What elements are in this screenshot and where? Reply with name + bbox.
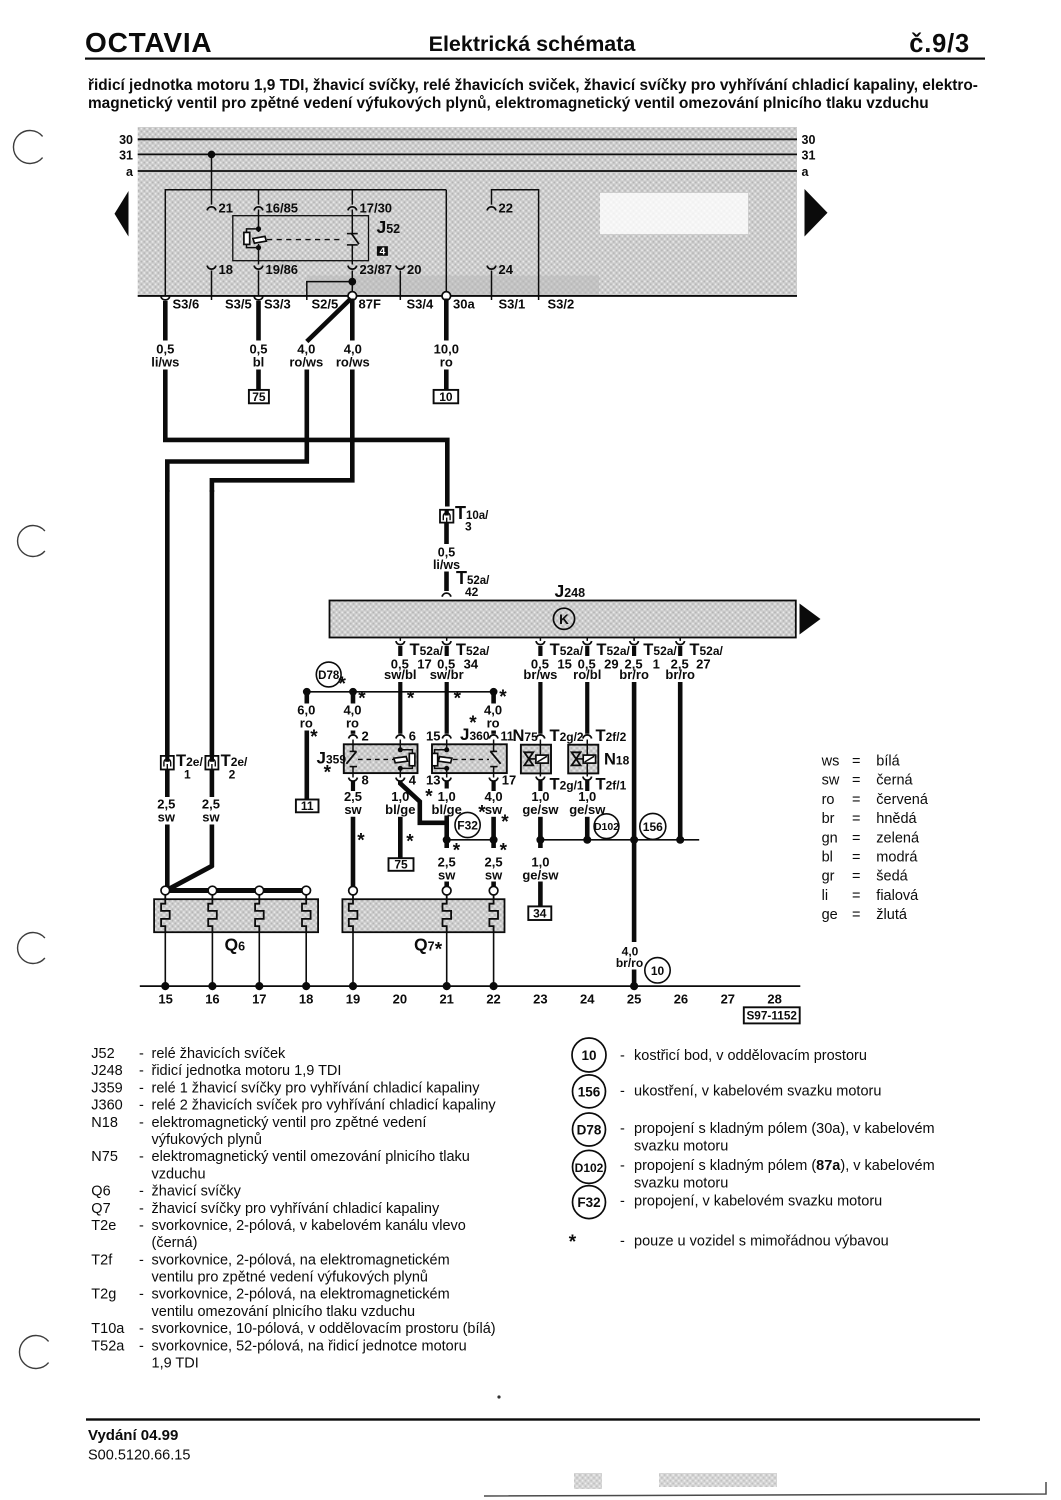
svg-text:42: 42 (465, 585, 479, 599)
glow plugs Q7 (342, 886, 504, 960)
D102 junction circle (594, 814, 619, 839)
svg-text:elektromagnetický ventil pro z: elektromagnetický ventil pro zpětné vede… (152, 1115, 427, 1131)
svg-text:T2g/2: T2g/2 (550, 727, 584, 745)
156 ground circle (640, 813, 666, 839)
N75 wire through (539, 740, 541, 777)
svg-text:75: 75 (394, 858, 408, 872)
svg-text:svorkovnice, 2-pólová, v kabel: svorkovnice, 2-pólová, v kabelovém kanál… (152, 1218, 466, 1234)
J360 pin 13 arc (442, 778, 451, 782)
svg-text:-: - (139, 1218, 144, 1234)
svg-text:N75: N75 (91, 1149, 118, 1165)
J359 pin 6 arc (396, 735, 405, 739)
svg-text:-: - (139, 1098, 144, 1114)
svg-text:31: 31 (119, 149, 133, 163)
wire 4,0 ro/ws first routed left-down (167, 370, 306, 493)
svg-text:21: 21 (439, 992, 453, 1007)
wire to Q7 terminal 3 (491, 882, 496, 887)
svg-text:Q7: Q7 (414, 935, 435, 955)
punch hole mark 2 (18, 526, 45, 557)
svg-text:br: br (822, 811, 835, 827)
wire 10,0 ro upper segment (444, 299, 449, 341)
terminal 19/86 arc (254, 266, 263, 270)
rail dot middle (349, 688, 357, 696)
J52 switch lower wire (351, 245, 353, 261)
J360 dashed link (453, 758, 489, 760)
svg-text:-: - (620, 1048, 625, 1064)
scan speck (497, 1395, 500, 1398)
svg-text:=: = (852, 869, 860, 885)
svg-text:=: = (852, 773, 860, 789)
svg-text:K: K (559, 612, 569, 627)
svg-text:gn: gn (822, 830, 838, 846)
svg-text:řidicí jednotka motoru 1,9 TDI: řidicí jednotka motoru 1,9 TDI, žhavicí … (88, 77, 978, 94)
svg-text:-: - (139, 1201, 144, 1217)
svg-text:34: 34 (533, 906, 547, 920)
junction rail R2 (447, 839, 494, 841)
svg-text:sw: sw (822, 773, 840, 789)
wire to Q7 terminal 2 (444, 882, 449, 887)
Q6 terminal 3 (255, 886, 264, 895)
R3 dot N18 (583, 836, 591, 844)
svg-text:F32: F32 (457, 819, 478, 833)
node 30a (442, 292, 451, 301)
left continuation arrow (115, 191, 129, 237)
svg-text:relé 2 žhavicích svíček pro vy: relé 2 žhavicích svíček pro vyhřívání ch… (152, 1098, 497, 1114)
scan smudge blob 2 (659, 1473, 777, 1487)
Q7 leg 2 (446, 932, 448, 986)
fuse row baseline (138, 295, 797, 297)
svg-text:zelená: zelená (876, 830, 920, 846)
J52 coil armature (253, 236, 267, 243)
Q6 leg 4 (305, 932, 307, 986)
N18 wire through (586, 740, 588, 777)
svg-text:svazku motoru: svazku motoru (634, 1176, 728, 1192)
svg-text:D102: D102 (575, 1161, 604, 1175)
terminal 18 stub to fuse row (211, 271, 213, 301)
J248 pin T52a/17 (384, 638, 444, 682)
svg-text:OCTAVIA: OCTAVIA (85, 27, 212, 58)
svg-text:-: - (620, 1234, 625, 1250)
svg-text:25: 25 (627, 992, 641, 1007)
ground designation box 34 (528, 906, 551, 920)
svg-text:modrá: modrá (876, 850, 918, 866)
svg-text:31: 31 (802, 149, 816, 163)
svg-text:-: - (139, 1321, 144, 1337)
svg-text:-: - (139, 1149, 144, 1165)
ground designation box 75 (249, 390, 269, 403)
J52 dashed link (267, 239, 344, 241)
terminal 16/85 arc (254, 207, 263, 211)
svg-text:-: - (139, 1338, 144, 1354)
svg-text:ro: ro (822, 792, 835, 808)
Q6 leg 1 (164, 932, 166, 986)
wire below T10a (444, 523, 449, 544)
svg-text:S00.5120.66.15: S00.5120.66.15 (88, 1448, 190, 1464)
svg-text:15: 15 (158, 992, 172, 1007)
svg-text:propojení s kladným pólem (87a: propojení s kladným pólem (87a), v kabel… (634, 1158, 935, 1174)
svg-text:č.9/3: č.9/3 (909, 30, 970, 58)
Q7 leg 3 (493, 932, 495, 986)
frame top line left (165, 190, 446, 296)
svg-text:-: - (139, 1287, 144, 1303)
valve N75 (513, 727, 584, 794)
scan smudge blob 1 (574, 1473, 602, 1489)
relay J360 (426, 713, 516, 788)
J52 switch upper contact (347, 233, 358, 235)
R2 dot left (443, 836, 451, 844)
svg-text:sw: sw (344, 802, 362, 817)
svg-text:75: 75 (252, 390, 266, 404)
svg-text:vzduchu: vzduchu (152, 1166, 206, 1182)
svg-text:Q6: Q6 (225, 935, 246, 955)
legend circle 10 (572, 1038, 606, 1072)
terminal 24 arc (487, 266, 496, 270)
svg-text:T2e: T2e (91, 1218, 116, 1234)
Q7 terminal 3 (489, 886, 498, 895)
terminal 17/30 arc (348, 207, 357, 211)
Q6 feed bus (165, 888, 306, 893)
glow plugs Q6 (154, 886, 318, 954)
svg-text:magnetický ventil pro zpětné v: magnetický ventil pro zpětné vedení výfu… (88, 95, 929, 112)
punch hole mark 1 (13, 131, 42, 164)
svg-text:*: * (435, 940, 443, 961)
J359 switch (352, 740, 354, 752)
svg-text:ro/ws: ro/ws (289, 355, 323, 370)
svg-text:ws: ws (821, 754, 840, 770)
wire A below connector (165, 770, 170, 798)
svg-text:1,9 TDI: 1,9 TDI (152, 1356, 199, 1372)
svg-text:=: = (852, 907, 860, 923)
wire 2,5 br/ro second down (678, 682, 683, 840)
rail dot right (490, 688, 498, 696)
wire below R2 left stub (444, 840, 449, 848)
svg-text:-: - (139, 1184, 144, 1200)
svg-text:Elektrická schémata: Elektrická schémata (429, 32, 637, 56)
svg-text:hnědá: hnědá (876, 811, 917, 827)
svg-text:br/ro: br/ro (616, 956, 643, 970)
ground track line (140, 985, 801, 987)
terminal 21 arc (207, 207, 216, 211)
wire pin8 to Q7 terminal 1 (351, 817, 356, 887)
svg-text:-: - (139, 1063, 144, 1079)
svg-text:relé 1 žhavicí svíčky pro vyhř: relé 1 žhavicí svíčky pro vyhřívání chla… (152, 1080, 481, 1096)
wire 0,5 li/ws upper segment (163, 301, 168, 341)
wire 0,5 li/ws routed to T10a (165, 370, 447, 507)
terminal 20 stub to fuse row (399, 271, 401, 301)
svg-text:=: = (852, 754, 860, 770)
svg-text:S3/5: S3/5 (225, 297, 252, 312)
svg-text:bl: bl (253, 355, 265, 370)
rail dot left (303, 688, 311, 696)
svg-text:sw/br: sw/br (430, 667, 464, 682)
J52 coil bottom dot (256, 245, 261, 250)
svg-text:br/ro: br/ro (665, 667, 695, 682)
svg-text:17: 17 (252, 992, 266, 1007)
D78 circle (316, 662, 341, 687)
punch hole mark 3 (18, 932, 45, 963)
right continuation arrow (805, 189, 828, 237)
svg-text:ukostření, v kabelovém svazku: ukostření, v kabelovém svazku motoru (634, 1084, 881, 1100)
ground dots (161, 982, 169, 990)
svg-text:D78: D78 (577, 1123, 602, 1138)
svg-text:a: a (802, 165, 810, 179)
N18 pin arc T2f/1 (583, 777, 592, 781)
relay J359 (317, 729, 418, 788)
wire N75 to rail R3 (538, 817, 543, 848)
S3/6 plug arc on fuse row (161, 296, 170, 300)
svg-text:20: 20 (407, 262, 421, 277)
svg-text:bl: bl (822, 850, 833, 866)
N18 box (568, 745, 598, 774)
svg-text:4: 4 (379, 246, 385, 258)
Q6 leg 3 (258, 932, 260, 986)
svg-text:J248: J248 (555, 581, 586, 601)
svg-text:elektromagnetický ventil omezo: elektromagnetický ventil omezování plnic… (152, 1149, 470, 1165)
wire 4,0 ro stub to J360 pin11 (491, 692, 496, 704)
svg-text:=: = (852, 830, 860, 846)
N75 pin arc T2g/2 (536, 735, 545, 739)
J359 pin 4 arc (396, 778, 405, 782)
node 87F (348, 292, 357, 301)
ground point circle 10 (645, 958, 670, 983)
terminal 23/87 wire from J52 (351, 261, 353, 265)
svg-text:ventilu pro zpětné vedení výfu: ventilu pro zpětné vedení výfukových ply… (152, 1270, 428, 1286)
legend circle 156 (573, 1075, 606, 1108)
wire 4,0 ro/ws diagonal from 87F (307, 299, 351, 342)
wire 4,0 ro/ws second upper segment (350, 299, 355, 341)
control unit J248 box (330, 601, 796, 638)
svg-text:F32: F32 (577, 1195, 600, 1210)
svg-text:30: 30 (802, 133, 816, 147)
legend circle F32 (573, 1186, 606, 1219)
svg-text:(černá): (černá) (152, 1235, 198, 1251)
J248 pin 42 arc (442, 593, 451, 597)
wire 10,0 ro to box 10 (444, 370, 449, 390)
J360 pin 17 arc (489, 778, 498, 782)
svg-text:Q6: Q6 (91, 1184, 110, 1200)
J360 coil (446, 740, 448, 752)
frame 22 riser (492, 190, 539, 300)
Q6 leg 2 (211, 932, 213, 986)
J52 coil pin wire upper (258, 210, 260, 233)
svg-text:S3/1: S3/1 (499, 297, 526, 312)
J52 switch upper wire (351, 210, 353, 234)
svg-text:žhavicí svíčky: žhavicí svíčky (152, 1184, 242, 1200)
Q6 box (154, 899, 318, 932)
svg-text:20: 20 (393, 992, 407, 1007)
svg-text:pouze u vozidel s mimořádnou v: pouze u vozidel s mimořádnou výbavou (634, 1234, 889, 1250)
ground designation box 10 (434, 390, 459, 403)
svg-text:S97-1152: S97-1152 (746, 1009, 797, 1023)
wire A lower segment to Q6 (165, 825, 170, 889)
punch hole mark 4 (19, 1336, 48, 1369)
svg-text:=: = (852, 888, 860, 904)
J360 pin 11 arc (489, 735, 498, 739)
svg-text:J52: J52 (91, 1046, 114, 1062)
wire 0,5 br/ws to N75 (538, 682, 542, 734)
svg-text:bl/ge: bl/ge (385, 802, 415, 817)
svg-text:svazku motoru: svazku motoru (634, 1138, 728, 1154)
wire 6,0 ro to box 11 (304, 731, 309, 800)
svg-text:ge/sw: ge/sw (522, 802, 559, 817)
svg-text:S2/5: S2/5 (312, 297, 339, 312)
svg-text:černá: černá (876, 773, 913, 789)
Q7 terminal 2 (442, 886, 451, 895)
svg-text:J248: J248 (91, 1063, 122, 1079)
wire below R2 right stub (491, 840, 496, 848)
svg-text:-: - (139, 1115, 144, 1131)
svg-text:24: 24 (499, 262, 514, 277)
wire frame to terminal 16/85 (258, 190, 260, 205)
S3/3 plug arc on fuse row (254, 296, 263, 300)
svg-text:*: * (338, 674, 346, 695)
J359 box (344, 744, 418, 773)
svg-text:li: li (822, 888, 828, 904)
wire 4,0 ro/ws second routed left-down (212, 370, 352, 493)
svg-text:J359: J359 (91, 1080, 122, 1096)
wire to box 34 (538, 882, 543, 907)
svg-text:1: 1 (184, 768, 191, 782)
svg-text:4: 4 (409, 773, 417, 788)
svg-text:3: 3 (465, 520, 472, 534)
svg-text:15: 15 (557, 657, 571, 672)
wire 0,5 bl upper segment (256, 301, 261, 341)
wire 4,0 ro stub to J359 pin2 (351, 692, 356, 704)
svg-text:-: - (620, 1193, 625, 1209)
Q6 terminal 2 (208, 886, 217, 895)
svg-text:-: - (139, 1080, 144, 1096)
svg-text:-: - (620, 1121, 625, 1137)
header rule (85, 58, 985, 60)
svg-text:D102: D102 (594, 821, 619, 833)
svg-text:*: * (324, 762, 332, 783)
svg-text:červená: červená (876, 792, 929, 808)
wire pin4 branch to box 75 (398, 817, 403, 858)
svg-text:26: 26 (674, 992, 688, 1007)
svg-text:řidicí jednotka motoru 1,9 TDI: řidicí jednotka motoru 1,9 TDI (152, 1063, 342, 1079)
svg-text:ge: ge (822, 907, 838, 923)
svg-text:S3/2: S3/2 (548, 297, 575, 312)
svg-text:gr: gr (822, 869, 835, 885)
R2 dot right (490, 836, 498, 844)
svg-text:19: 19 (346, 992, 360, 1007)
J248 right arrow (800, 604, 821, 635)
Q7 leg 1 (352, 932, 354, 986)
svg-text:*: * (357, 831, 365, 852)
left riser wire A to T2e/1 (165, 490, 170, 756)
svg-text:18: 18 (219, 262, 233, 277)
junction dot on bus 31 (208, 151, 216, 159)
J52 coil bracket (247, 229, 259, 248)
svg-text:21: 21 (219, 201, 233, 216)
svg-text:sw: sw (485, 867, 503, 882)
svg-text:29: 29 (604, 657, 618, 672)
J359 coil (399, 740, 401, 752)
svg-text:30: 30 (119, 133, 133, 147)
terminal 19/86 wire from J52 (258, 261, 260, 265)
terminal 23/87 arc (348, 266, 357, 270)
svg-text:16/85: 16/85 (266, 201, 299, 216)
wire frame to terminal 17/30 (351, 190, 353, 205)
wire 0,5 bl to box 75 (256, 370, 261, 390)
svg-text:13: 13 (426, 773, 440, 788)
svg-text:svorkovnice, 10-pólová, v oddě: svorkovnice, 10-pólová, v oddělovacím pr… (152, 1321, 496, 1337)
svg-text:sw: sw (438, 867, 456, 882)
svg-text:=: = (852, 792, 860, 808)
wire J360 pin13 stub (445, 781, 449, 789)
connector T10a (440, 510, 453, 523)
svg-text:87F: 87F (359, 297, 381, 312)
wire 2,5 br/ro long down (632, 682, 637, 942)
wire J360 pin17 stub (492, 781, 496, 791)
J52 switch blade (352, 234, 360, 245)
svg-text:10: 10 (439, 390, 453, 404)
bus bar 31 (138, 153, 797, 155)
J359 dashed link (358, 758, 394, 760)
svg-text:-: - (620, 1158, 625, 1174)
svg-text:N18: N18 (91, 1115, 118, 1131)
Q6 terminal 4 (302, 886, 311, 895)
svg-text:T2f: T2f (91, 1252, 113, 1268)
svg-text:11: 11 (301, 799, 314, 813)
svg-text:S3/3: S3/3 (264, 297, 291, 312)
svg-text:br/ws: br/ws (523, 667, 557, 682)
svg-text:ro/ws: ro/ws (336, 355, 370, 370)
svg-text:sw: sw (158, 810, 176, 825)
svg-text:li/ws: li/ws (151, 355, 179, 370)
svg-text:*: * (501, 812, 509, 833)
svg-text:J359: J359 (317, 749, 347, 768)
terminal 22 arc (487, 207, 496, 211)
N75 box (521, 745, 551, 774)
svg-text:S3/6: S3/6 (173, 297, 200, 312)
svg-text:22: 22 (499, 201, 513, 216)
J360 box (432, 744, 507, 773)
N18 solenoid (576, 758, 583, 760)
wire N18 to rail R3 (585, 817, 590, 840)
junction dot 23/87 (348, 278, 356, 286)
legend circle D78 (573, 1113, 606, 1146)
svg-text:10: 10 (651, 964, 665, 978)
svg-text:22: 22 (486, 992, 500, 1007)
white scan artifact (600, 193, 748, 234)
wire jog to S2/5 (307, 282, 353, 300)
svg-text:*: * (407, 688, 415, 709)
svg-text:Q7: Q7 (91, 1201, 110, 1217)
wire N75 T2g/1 stub (538, 780, 542, 792)
svg-text:*: * (569, 1232, 577, 1253)
svg-text:S3/4: S3/4 (407, 297, 435, 312)
connector T2e/1 (161, 756, 174, 770)
svg-text:19/86: 19/86 (266, 262, 299, 277)
relay plate gray background (138, 127, 797, 296)
Q6 plug elements (161, 895, 170, 932)
legend circle D102 (573, 1150, 606, 1183)
J360 switch (493, 740, 495, 752)
N75 solenoid (529, 758, 536, 760)
connector T2e/2 (205, 756, 218, 770)
wire pin17 to R2 dot (491, 817, 496, 840)
svg-text:svorkovnice, 52-pólová, na řid: svorkovnice, 52-pólová, na řidicí jednot… (152, 1338, 467, 1354)
svg-text:28: 28 (767, 992, 781, 1007)
color code legend (821, 754, 929, 924)
N18 pin arc T2f/2 (583, 735, 592, 739)
J248 pin T52a/27 (665, 638, 723, 682)
left riser wire B to T2e/2 (210, 490, 215, 756)
wire 0,5 sw/br to J360 pin 15 (445, 682, 449, 734)
J52 coil pin wire lower (258, 244, 260, 261)
J359 pin 8 arc (349, 778, 358, 782)
